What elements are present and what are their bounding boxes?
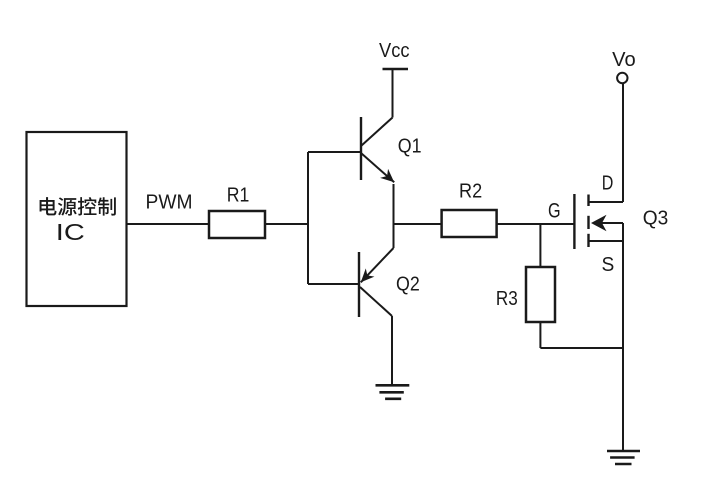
svg-text:Q2: Q2 xyxy=(396,274,420,296)
svg-text:G: G xyxy=(548,200,561,223)
svg-text:Q3: Q3 xyxy=(643,208,669,230)
svg-text:Vcc: Vcc xyxy=(379,40,410,62)
svg-text:S: S xyxy=(602,254,615,276)
svg-text:R3: R3 xyxy=(496,288,518,310)
svg-text:R1: R1 xyxy=(227,185,250,207)
svg-text:Vo: Vo xyxy=(612,49,636,71)
svg-text:IC: IC xyxy=(56,219,85,245)
svg-text:R2: R2 xyxy=(459,180,482,202)
svg-text:Q1: Q1 xyxy=(398,135,422,157)
svg-text:PWM: PWM xyxy=(146,192,193,214)
svg-text:D: D xyxy=(602,173,614,195)
